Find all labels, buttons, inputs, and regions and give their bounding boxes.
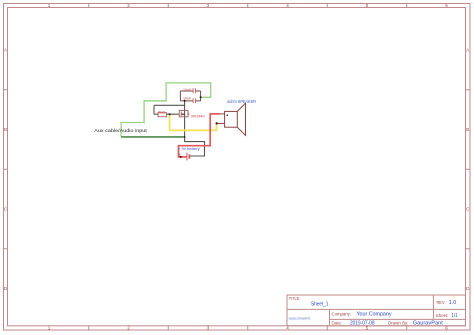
svg-text:easyeda.com/GauravPant: easyeda.com/GauravPant — [289, 317, 311, 321]
svg-text:Sheet_1: Sheet_1 — [311, 301, 329, 307]
svg-text:3: 3 — [207, 3, 210, 8]
svg-text:6: 6 — [445, 3, 448, 8]
svg-text:B: B — [4, 127, 7, 132]
svg-text:IRFZ44N: IRFZ44N — [191, 114, 205, 118]
svg-text:2kΩ: 2kΩ — [158, 109, 165, 114]
svg-text:2: 2 — [127, 326, 130, 331]
svg-text:10uF: 10uF — [183, 96, 192, 101]
svg-text:5: 5 — [366, 3, 369, 8]
svg-text:1/1: 1/1 — [452, 313, 458, 319]
svg-text:4: 4 — [286, 3, 289, 8]
svg-text:Company:: Company: — [332, 312, 352, 317]
svg-text:4ohm SPEAKER: 4ohm SPEAKER — [227, 99, 256, 104]
svg-text:Sheet:: Sheet: — [436, 313, 449, 318]
svg-text:+ 9v battery: + 9v battery — [178, 147, 200, 151]
svg-text:6: 6 — [445, 326, 448, 331]
svg-text:TITLE:: TITLE: — [289, 296, 301, 301]
svg-text:REV:: REV: — [437, 300, 446, 305]
svg-text:1.0: 1.0 — [449, 300, 457, 306]
svg-text:GauravPant: GauravPant — [413, 321, 444, 327]
svg-text:2: 2 — [127, 3, 130, 8]
svg-text:Drawn By:: Drawn By: — [388, 320, 409, 325]
svg-text:10uF: 10uF — [183, 87, 192, 92]
svg-text:Aux cable/Audio input: Aux cable/Audio input — [94, 128, 147, 133]
svg-text:2019-07-08: 2019-07-08 — [350, 321, 375, 327]
svg-text:1: 1 — [48, 3, 51, 8]
svg-text:4: 4 — [286, 326, 289, 331]
svg-text:Your Company: Your Company — [357, 312, 392, 318]
svg-text:Date:: Date: — [332, 320, 343, 325]
svg-text:3: 3 — [207, 326, 210, 331]
svg-text:B: B — [466, 127, 469, 132]
svg-text:1: 1 — [48, 326, 51, 331]
